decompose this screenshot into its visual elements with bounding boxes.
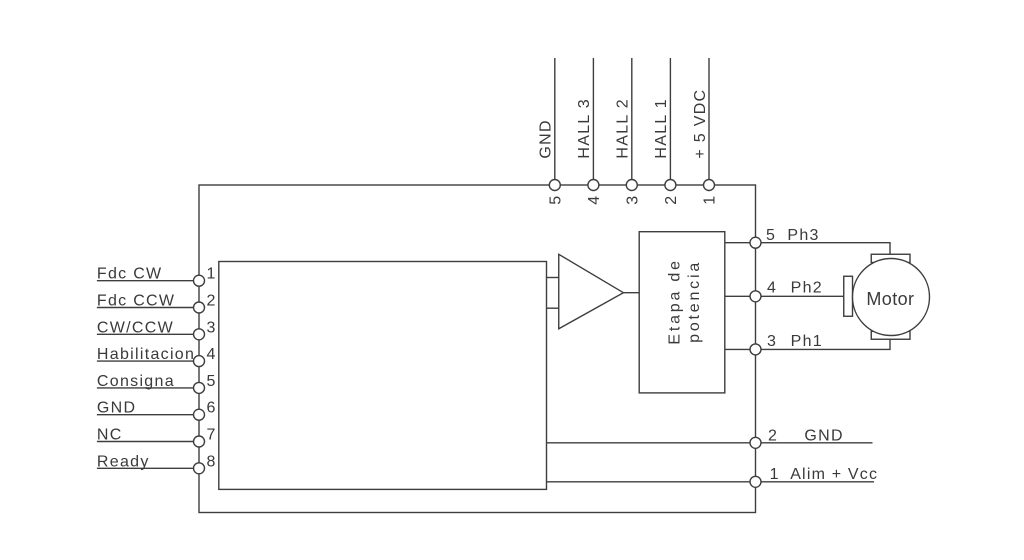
pad output pin2 GND	[750, 437, 761, 448]
wire pin7 NC	[97, 441, 199, 443]
svg-text:2: 2	[663, 195, 680, 205]
svg-text:4: 4	[207, 346, 217, 363]
label GND left	[97, 400, 136, 417]
wire pin3 CW/CCW	[97, 333, 199, 335]
pin pad 8 Ready	[194, 463, 205, 474]
pin number 4 right	[767, 279, 777, 296]
pin number 8 left	[207, 453, 217, 470]
pin pad 5 Consigna	[194, 382, 205, 393]
controller block (inner box)	[219, 262, 547, 490]
svg-text:3: 3	[624, 195, 641, 205]
wire Ph1 output	[725, 339, 890, 349]
svg-text:1: 1	[770, 466, 780, 483]
label Etapa de potencia (rotated)	[666, 258, 702, 344]
label CW/CCW	[97, 319, 174, 336]
wire hall connector pin4 HALL 3 top	[592, 58, 594, 185]
label Alim + Vcc	[790, 466, 878, 483]
svg-text:7: 7	[207, 427, 217, 444]
pad output pin1 Alim	[750, 476, 761, 487]
wire pin6 GND	[97, 414, 199, 416]
pin number 3 left	[207, 319, 217, 336]
pin number 1 left	[207, 266, 217, 283]
pad output pin5 Ph3	[750, 237, 761, 248]
pin number 5 left	[207, 373, 217, 390]
label HALL 1 (rotated)	[653, 98, 670, 159]
pad hall pin3	[626, 180, 637, 191]
svg-text:NC: NC	[97, 427, 123, 444]
wire Alim + Vcc output pin1	[547, 481, 875, 483]
svg-text:GND: GND	[804, 427, 843, 444]
motor terminal block bottom	[871, 331, 910, 339]
svg-text:3: 3	[767, 333, 777, 350]
svg-text:+ 5 VDC: + 5 VDC	[692, 89, 709, 159]
pad hall pin1	[704, 180, 715, 191]
motor terminal block left	[844, 276, 853, 316]
label Ph2	[791, 279, 823, 296]
label Ready	[97, 453, 150, 470]
hall pin number 2 (rotated)	[663, 195, 680, 205]
pin number 3 right	[767, 333, 777, 350]
label GND hall (rotated)	[538, 119, 555, 158]
svg-text:Etapa de: Etapa de	[666, 258, 683, 344]
svg-text:1: 1	[207, 266, 217, 283]
svg-text:3: 3	[207, 319, 217, 336]
wire GND output pin2	[547, 442, 873, 444]
hall pin number 3 (rotated)	[624, 195, 641, 205]
svg-text:potencia: potencia	[686, 260, 703, 343]
label Fdc CCW	[97, 293, 175, 310]
buffer amplifier (triangle)	[559, 254, 624, 328]
svg-text:Ph3: Ph3	[787, 227, 819, 244]
svg-text:Alim + Vcc: Alim + Vcc	[790, 466, 878, 483]
pin number 6 left	[207, 400, 217, 417]
svg-text:Fdc CW: Fdc CW	[97, 266, 163, 283]
motor terminal block top	[871, 254, 910, 262]
pin pad 4 Habilitacion	[194, 356, 205, 367]
pin pad 2 Fdc CCW	[194, 302, 205, 313]
svg-text:HALL 2: HALL 2	[615, 98, 632, 159]
svg-text:2: 2	[768, 427, 778, 444]
pad hall pin4	[588, 180, 599, 191]
svg-text:HALL 3: HALL 3	[576, 98, 593, 159]
wire Ph3 output	[725, 243, 890, 255]
svg-text:1: 1	[702, 195, 719, 205]
svg-text:5: 5	[207, 373, 217, 390]
wire amplifier output to power stage	[623, 292, 639, 294]
wire Ph2 output	[725, 295, 844, 297]
pin number 4 left	[207, 346, 217, 363]
svg-text:HALL 1: HALL 1	[653, 98, 670, 159]
pin number 1 right	[770, 466, 780, 483]
svg-text:Ph2: Ph2	[791, 279, 823, 296]
hall pin number 1 (rotated)	[702, 195, 719, 205]
label Consigna	[97, 373, 175, 390]
svg-text:Ph1: Ph1	[791, 333, 823, 350]
svg-text:5: 5	[547, 195, 564, 205]
wire pin2 Fdc CCW	[97, 307, 199, 309]
hall pin number 5 (rotated)	[547, 195, 564, 205]
label Habilitacion	[97, 346, 195, 363]
label HALL 3 (rotated)	[576, 98, 593, 159]
svg-text:CW/CCW: CW/CCW	[97, 319, 174, 336]
svg-text:GND: GND	[538, 119, 555, 158]
label Ph1	[791, 333, 823, 350]
pin number 7 left	[207, 427, 217, 444]
svg-text:4: 4	[767, 279, 777, 296]
svg-text:5: 5	[766, 227, 776, 244]
pad hall pin2	[665, 180, 676, 191]
wire hall connector pin1 +5VDC top	[708, 58, 710, 185]
hall pin number 4 (rotated)	[586, 195, 603, 205]
pin number 5 right	[766, 227, 776, 244]
wire hall connector pin2 HALL 1 top	[669, 58, 671, 185]
svg-text:Fdc CCW: Fdc CCW	[97, 293, 175, 310]
pin number 2 right	[768, 427, 778, 444]
pin pad 1 Fdc CW	[194, 275, 205, 286]
pin number 2 left	[207, 293, 217, 310]
svg-text:8: 8	[207, 453, 217, 470]
pin pad 6 GND	[194, 409, 205, 420]
pad output pin3 Ph1	[750, 344, 761, 355]
label NC	[97, 427, 123, 444]
pin pad 3 CW/CCW	[194, 329, 205, 340]
svg-text:Ready: Ready	[97, 453, 150, 470]
svg-text:GND: GND	[97, 400, 136, 417]
wire pin5 Consigna	[97, 387, 199, 389]
svg-text:Motor: Motor	[866, 289, 914, 309]
wire hall connector pin3 HALL 2 top	[631, 58, 633, 185]
label GND right	[804, 427, 843, 444]
buffer amplifier input bus lower line	[547, 307, 559, 309]
svg-text:4: 4	[586, 195, 603, 205]
pad output pin4 Ph2	[750, 291, 761, 302]
label + 5 VDC (rotated)	[692, 89, 709, 159]
wire pin8 Ready	[97, 467, 199, 469]
buffer amplifier input bus upper line	[547, 277, 559, 279]
svg-text:Consigna: Consigna	[97, 373, 175, 390]
wire pin1 Fdc CW	[97, 280, 199, 282]
label Fdc CW	[97, 266, 163, 283]
motor M1 body	[853, 259, 930, 336]
label Ph3	[787, 227, 819, 244]
label HALL 2 (rotated)	[615, 98, 632, 159]
svg-text:Habilitacion: Habilitacion	[97, 346, 195, 363]
wire pin4 Habilitacion	[97, 360, 199, 362]
label Motor	[866, 289, 914, 309]
svg-text:2: 2	[207, 293, 217, 310]
outer enclosure box (driver board)	[199, 185, 756, 513]
pad hall pin5	[549, 180, 560, 191]
wire hall connector pin5 GND top	[554, 58, 556, 185]
svg-text:6: 6	[207, 400, 217, 417]
pin pad 7 NC	[194, 436, 205, 447]
power stage block (Etapa de potencia)	[639, 232, 725, 393]
